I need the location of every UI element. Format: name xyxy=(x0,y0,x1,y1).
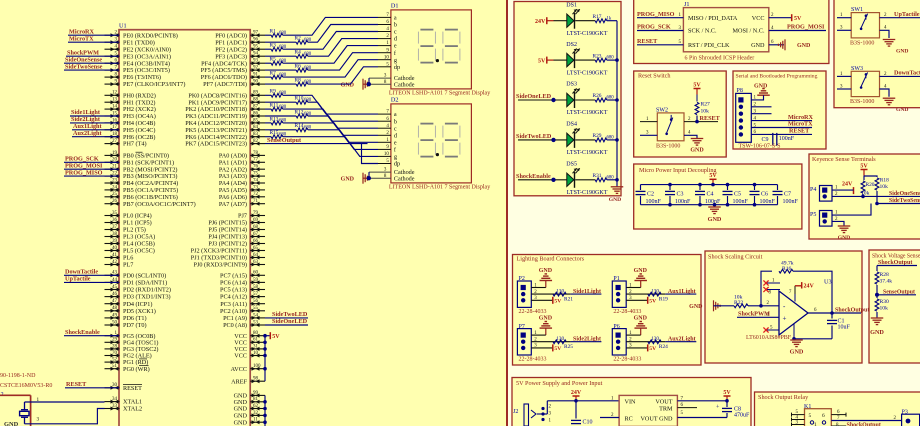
ground P6 pin 1 xyxy=(634,316,648,336)
D2 cathode pin 3 xyxy=(369,168,415,177)
svg-text:LT6010AIS8#PBF: LT6010AIS8#PBF xyxy=(746,335,792,341)
resistor R26 680 xyxy=(575,93,617,102)
junction xyxy=(615,178,619,182)
LED DS5 LTST-C190GKT xyxy=(516,162,608,197)
P6 pin 1 wire xyxy=(626,331,641,336)
regulator pin 5 wire xyxy=(677,411,727,418)
MCU pin 65 PJ2 (XCK3/PCINT11) xyxy=(191,246,265,255)
svg-text:54: 54 xyxy=(253,313,259,318)
wire XTAL2 xyxy=(25,409,105,424)
svg-text:96: 96 xyxy=(253,38,259,43)
svg-text:R20: R20 xyxy=(866,182,875,188)
svg-text:PG0 (WR): PG0 (WR) xyxy=(123,366,150,373)
junction xyxy=(759,304,763,308)
SW3 pin 3 wire xyxy=(837,84,851,89)
svg-text:130: 130 xyxy=(651,336,659,342)
resistor R27 10k xyxy=(695,102,710,115)
resistor R23 680 xyxy=(575,53,617,62)
svg-text:PJ0 (RXD3/PCINT9): PJ0 (RXD3/PCINT9) xyxy=(194,262,247,269)
svg-text:SideOneLED: SideOneLED xyxy=(272,318,308,325)
svg-text:33: 33 xyxy=(112,404,118,409)
wire net Side1Light xyxy=(70,115,119,117)
LED DS4 LTST-C190GKT xyxy=(516,122,608,157)
MCU pin 59 PC6 (A14) xyxy=(220,278,265,287)
svg-text:GND: GND xyxy=(689,304,703,310)
svg-text:PL7: PL7 xyxy=(123,262,133,269)
svg-text:5V: 5V xyxy=(272,334,280,340)
svg-text:LITEON LSHD-A101 7 Segment Dis: LITEON LSHD-A101 7 Segment Display xyxy=(389,91,490,97)
MCU pin 42 PL7 xyxy=(105,260,134,269)
svg-text:SideTwoSense: SideTwoSense xyxy=(65,63,103,70)
svg-text:DS2: DS2 xyxy=(566,42,577,48)
svg-text:c: c xyxy=(394,29,397,36)
svg-text:GND: GND xyxy=(870,329,884,336)
resistor R17 1k xyxy=(575,14,617,23)
svg-text:10k: 10k xyxy=(701,109,710,115)
svg-text:26: 26 xyxy=(112,199,118,204)
svg-text:LITEON LSHD-A101 7 Segment Dis: LITEON LSHD-A101 7 Segment Display xyxy=(389,185,490,191)
junction xyxy=(263,341,267,345)
svg-text:R26: R26 xyxy=(593,93,602,99)
MCU pin 77 PA1 (AD1) xyxy=(219,158,265,167)
svg-text:52: 52 xyxy=(112,358,118,363)
D2 pin 4 segment c xyxy=(378,124,397,133)
svg-text:AVCC: AVCC xyxy=(231,366,247,373)
connector P2 22-28-4033 xyxy=(517,276,546,315)
resistor R30 10k xyxy=(875,299,889,312)
svg-text:55: 55 xyxy=(253,306,259,311)
MCU pin 80 VCC xyxy=(234,331,265,340)
svg-text:PL3 (OC5A): PL3 (OC5A) xyxy=(123,234,155,241)
svg-text:85: 85 xyxy=(253,118,259,123)
LED indicators group box xyxy=(514,2,621,196)
MCU pin 11 GND xyxy=(234,418,265,426)
svg-text:10k: 10k xyxy=(880,306,889,312)
svg-text:P4: P4 xyxy=(810,187,816,193)
svg-text:PJ5 (PCINT14): PJ5 (PCINT14) xyxy=(208,227,247,234)
MCU pin 4 PE2 (XCK0/AIN0) xyxy=(105,45,171,54)
MCU pin 88 PK1 (ADC9/PCINT17) xyxy=(188,98,265,107)
svg-text:5V: 5V xyxy=(649,346,656,352)
D1 pin 4 segment c xyxy=(378,27,397,35)
MCU pin 24 PB5 (OC1A/PCINT5) xyxy=(105,185,179,194)
resistor R11 680 xyxy=(265,103,287,112)
svg-text:SideTwoSense: SideTwoSense xyxy=(889,198,920,204)
MCU pin 83 PK6 (ADC14/PCINT22) xyxy=(185,132,265,141)
wire to inverting input xyxy=(748,305,779,307)
svg-text:11: 11 xyxy=(253,418,258,423)
svg-text:LTST-C190GKT: LTST-C190GKT xyxy=(567,150,608,156)
svg-text:PD1 (SDA/INT1): PD1 (SDA/INT1) xyxy=(123,280,167,287)
regulator pin texts xyxy=(625,398,674,422)
D1 cathode pin 3 xyxy=(369,74,415,83)
svg-text:e: e xyxy=(394,139,397,146)
MCU pin 27 PH7 (T4) xyxy=(105,139,147,148)
svg-text:40: 40 xyxy=(112,246,118,251)
wire PF1 to D1 segment xyxy=(308,25,378,43)
svg-text:VIN: VIN xyxy=(625,398,637,405)
svg-text:PL4 (OC5B): PL4 (OC5B) xyxy=(123,241,155,248)
svg-text:PF2 (ADC2): PF2 (ADC2) xyxy=(215,46,247,53)
svg-text:38: 38 xyxy=(112,232,118,237)
svg-text:dp: dp xyxy=(394,64,400,71)
svg-text:37.4k: 37.4k xyxy=(880,279,893,285)
svg-text:Shock Voltage Sense: Shock Voltage Sense xyxy=(872,254,920,260)
svg-text:R29: R29 xyxy=(593,133,602,139)
wire net SideTwoLED xyxy=(265,317,308,319)
no-connect pin 8 xyxy=(763,287,780,296)
svg-text:MicroTX: MicroTX xyxy=(69,35,94,42)
regulator pin 2 wire xyxy=(600,413,619,418)
svg-text:Reset Switch: Reset Switch xyxy=(638,73,671,80)
svg-text:46: 46 xyxy=(112,292,118,297)
svg-text:Keyence Sense Terminals: Keyence Sense Terminals xyxy=(812,156,876,163)
MCU pin 20 PB1 (SCK/PCINT1) xyxy=(105,158,175,167)
P4 pin 2 wire SideOneSense xyxy=(832,192,920,198)
svg-text:PF7 (ADC7/TDI): PF7 (ADC7/TDI) xyxy=(203,81,247,88)
J1 pin row 3/4 xyxy=(688,28,765,35)
wire PF3 to D1 segment xyxy=(308,39,378,57)
svg-text:DS5: DS5 xyxy=(566,162,577,168)
svg-text:R8: R8 xyxy=(295,78,302,84)
MCU pin 68 PJ5 (PCINT14) xyxy=(208,225,265,234)
resistor R5 680 xyxy=(265,57,287,66)
svg-text:90: 90 xyxy=(253,80,259,85)
svg-text:53: 53 xyxy=(253,320,259,325)
junction xyxy=(875,202,879,206)
D1 pin 9 segment f xyxy=(378,48,397,57)
capacitor C3 100nF xyxy=(665,183,691,207)
MCU pin 57 PC4 (A12) xyxy=(220,292,265,301)
svg-text:48: 48 xyxy=(112,306,118,311)
MCU pin 49 PD6 (T1) xyxy=(105,313,147,322)
resistor R21 130 net Side1Light xyxy=(531,289,601,303)
SW2 pin 1 wire xyxy=(640,117,657,122)
svg-text:97: 97 xyxy=(253,31,259,36)
junction xyxy=(574,399,578,403)
svg-text:1: 1 xyxy=(814,422,817,426)
op-amp output pin 6 xyxy=(808,308,834,315)
power 5V reset pullup xyxy=(694,88,701,90)
svg-text:28: 28 xyxy=(112,344,118,349)
svg-text:100nF: 100nF xyxy=(779,136,795,142)
wire PK5 to D2 segment xyxy=(308,130,378,150)
wire PF5 to D1 segment xyxy=(308,53,378,70)
ground P7 pin 1 xyxy=(539,316,553,336)
svg-text:RST / PDI_CLK: RST / PDI_CLK xyxy=(688,42,730,49)
resonator Z2 part labels xyxy=(0,373,52,398)
resistor R6 680 xyxy=(265,64,312,73)
svg-text:27: 27 xyxy=(112,139,118,144)
no-connect pin 5 xyxy=(763,325,779,332)
svg-text:R12: R12 xyxy=(295,109,304,115)
wire 5V to R18 xyxy=(864,176,877,177)
MCU pin 78 PA0 (AD0) xyxy=(219,151,265,160)
MCU pin 70 PG2 (ALE) xyxy=(105,351,152,360)
svg-text:71: 71 xyxy=(253,199,259,204)
MCU pin 15 PH3 (OC4A) xyxy=(105,111,156,120)
svg-text:DownTactile: DownTactile xyxy=(65,269,98,276)
wire 24V rail xyxy=(547,400,619,402)
P7 pin 3 5V xyxy=(531,344,561,353)
svg-text:5V: 5V xyxy=(554,346,561,352)
MCU pin 54 PC1 (A9) xyxy=(223,313,265,322)
MCU pin 28 PG3 (TOSC2) xyxy=(105,344,159,353)
Shock Voltage Sense group box xyxy=(869,250,920,363)
svg-text:U1: U1 xyxy=(119,23,127,30)
svg-text:SideOneSense: SideOneSense xyxy=(889,191,920,197)
svg-text:PF1 (ADC1): PF1 (ADC1) xyxy=(215,39,247,46)
svg-text:57: 57 xyxy=(253,292,259,297)
P6 pin 3 5V xyxy=(626,344,656,353)
svg-text:MISO / PDI_DATA: MISO / PDI_DATA xyxy=(688,15,738,22)
svg-text:R11: R11 xyxy=(270,103,279,109)
LED DS1 LTST-C190GKT xyxy=(535,2,608,37)
wire feedback to output xyxy=(793,271,832,313)
MCU pin 29 PG4 (TOSC1) xyxy=(105,338,159,347)
resistor R24 130 net Aux2Light xyxy=(626,336,696,350)
svg-text:PC6 (A14): PC6 (A14) xyxy=(220,280,247,287)
svg-text:C7: C7 xyxy=(784,192,791,198)
MCU pin 98 AREF xyxy=(231,377,265,386)
power 24V input flag xyxy=(573,395,580,397)
svg-text:RESET: RESET xyxy=(637,38,658,45)
MCU pin 74 PA4 (AD4) xyxy=(219,178,265,187)
svg-text:100nF: 100nF xyxy=(760,199,776,205)
svg-text:PE5 (OC3C/INT5): PE5 (OC3C/INT5) xyxy=(123,67,170,74)
SW1 pin 2 net UpTactile xyxy=(880,11,920,18)
svg-text:Shock Output Relay: Shock Output Relay xyxy=(758,394,809,401)
svg-text:78: 78 xyxy=(253,151,259,156)
5V Power Supply group box xyxy=(512,378,751,426)
svg-text:130: 130 xyxy=(556,289,564,295)
MCU pin 2 PE0 (RXD0/PCINT8) xyxy=(105,31,178,40)
svg-text:D2: D2 xyxy=(391,97,399,104)
svg-text:PJ3 (PCINT12): PJ3 (PCINT12) xyxy=(208,241,247,248)
op-amp pin 4 to ground rail xyxy=(790,324,832,356)
MCU pin 91 PF6 (ADC6/TDO) xyxy=(201,73,265,82)
svg-text:P5: P5 xyxy=(810,212,816,218)
svg-text:PD2 (RXD1/INT2): PD2 (RXD1/INT2) xyxy=(123,287,171,294)
svg-text:B3S-1000: B3S-1000 xyxy=(850,99,874,105)
svg-text:5V: 5V xyxy=(649,299,656,305)
MCU pin 71 PA7 (AD7) xyxy=(219,199,265,208)
wire SenseOutput to D2 dp xyxy=(362,144,379,164)
D1 pin 6 segment b xyxy=(378,20,397,29)
resistor R31 680 xyxy=(575,173,617,182)
svg-text:PK7 (ADC15/PCINT23): PK7 (ADC15/PCINT23) xyxy=(185,141,247,148)
svg-text:67: 67 xyxy=(253,232,259,237)
D2 decimal point xyxy=(436,153,439,156)
svg-text:SideTwoLED: SideTwoLED xyxy=(516,133,552,140)
MCU pin 63 PJ0 (RXD3/PCINT9) xyxy=(194,260,265,269)
MCU pin 35 PL0 (ICP4) xyxy=(105,211,152,220)
MCU pin 62 GND xyxy=(234,404,265,413)
svg-text:GND: GND xyxy=(690,148,704,154)
D2 pin 5 segment dp xyxy=(378,159,400,168)
MCU pin 46 PD3 (TXD1/INT3) xyxy=(105,292,171,301)
MCU pin 31 VCC xyxy=(234,344,265,353)
svg-text:ShockPWM: ShockPWM xyxy=(738,311,770,318)
D1 pin 10 segment g xyxy=(378,55,397,64)
P2 pin 1 wire xyxy=(531,283,546,288)
svg-text:R24: R24 xyxy=(659,344,668,350)
SW1 pin 4 to ground xyxy=(880,26,909,55)
D2 digit graphic xyxy=(418,124,435,157)
D1 digit graphic xyxy=(418,30,435,63)
wire 5V rail xyxy=(641,185,778,205)
wire net PROG_MISO to J1 pin 1 xyxy=(637,11,683,18)
svg-text:PD7 (T0): PD7 (T0) xyxy=(123,322,147,329)
resistor R29 680 xyxy=(575,133,617,142)
svg-text:86: 86 xyxy=(253,111,259,116)
svg-text:PC2 (A10): PC2 (A10) xyxy=(220,308,247,315)
svg-text:UpTactile: UpTactile xyxy=(894,11,920,18)
svg-text:PD5 (XCK1): PD5 (XCK1) xyxy=(123,308,156,315)
wire net DownTactile xyxy=(64,274,119,276)
MCU pin 76 PA2 (AD2) xyxy=(219,165,265,174)
svg-text:470uF: 470uF xyxy=(734,413,750,419)
svg-text:PB7 (OC0A/OC1C/PCINT7): PB7 (OC0A/OC1C/PCINT7) xyxy=(123,201,196,208)
MCU pin 37 PL2 (T5) xyxy=(105,225,146,234)
svg-text:RC: RC xyxy=(625,415,633,422)
resistor R12 680 xyxy=(265,109,312,118)
svg-text:65: 65 xyxy=(253,246,259,251)
MCU pin 34 XTAL1 xyxy=(105,397,143,406)
svg-text:g: g xyxy=(394,57,397,64)
wire PF6 to D1 segment xyxy=(283,60,378,77)
svg-text:VOUT GND: VOUT GND xyxy=(640,415,673,422)
svg-text:GND: GND xyxy=(754,84,768,90)
connector J2 power jack xyxy=(513,404,552,426)
wire PF7 to D1 segment xyxy=(308,67,378,84)
J1 pin row 5/6 xyxy=(688,42,765,49)
MCU pin 55 PC2 (A10) xyxy=(220,306,265,315)
svg-text:23: 23 xyxy=(112,178,118,183)
wire PK6 to D2 segment xyxy=(283,137,378,157)
MCU pin 13 PH1 (TXD2) xyxy=(105,98,156,107)
net label ShockPWM and wire xyxy=(737,311,779,318)
D1 digit graphic xyxy=(443,30,460,63)
svg-text:PE6 (T3/INT6): PE6 (T3/INT6) xyxy=(123,74,161,81)
MCU pin 81 GND xyxy=(234,397,265,406)
junction xyxy=(615,138,619,142)
wire net RESET to J1 pin 5 xyxy=(637,38,683,45)
ground P1 pin 1 xyxy=(634,268,648,288)
MCU pin 45 PD2 (RXD1/INT2) xyxy=(105,285,171,294)
svg-text:PL6: PL6 xyxy=(123,255,133,262)
junction xyxy=(711,183,715,187)
svg-text:b: b xyxy=(394,22,397,29)
resonator Z2 symbol xyxy=(20,397,40,424)
MCU pin 16 PH4 (OC4B) xyxy=(105,118,156,127)
capacitor C1 10uF xyxy=(827,313,851,339)
ground P8 pin1 xyxy=(754,84,770,96)
svg-text:22-28-4033: 22-28-4033 xyxy=(519,309,547,315)
svg-text:5V: 5V xyxy=(709,173,717,179)
MCU pin 87 PK2 (ADC10/PCINT18) xyxy=(185,105,265,114)
MCU pin 58 PC5 (A13) xyxy=(220,285,265,294)
MCU pin 21 PB2 (MOSI/PCINT2) xyxy=(105,165,178,174)
svg-text:R3: R3 xyxy=(270,43,277,49)
svg-text:10: 10 xyxy=(253,351,259,356)
svg-text:24V: 24V xyxy=(571,390,582,396)
MCU pin 43 PD0 (SCL/INT0) xyxy=(105,271,167,280)
svg-text:92: 92 xyxy=(253,66,259,71)
svg-text:R31: R31 xyxy=(593,173,602,179)
resistor R7 680 xyxy=(265,71,287,80)
svg-text:PL1 (ICP5): PL1 (ICP5) xyxy=(123,220,152,227)
D1 decimal point xyxy=(436,59,439,62)
svg-text:51: 51 xyxy=(112,364,118,369)
svg-text:95: 95 xyxy=(253,45,259,50)
svg-text:XTAL2: XTAL2 xyxy=(123,406,142,413)
resistor R14 680 xyxy=(265,123,312,132)
svg-text:C3: C3 xyxy=(677,192,684,198)
svg-text:10uF: 10uF xyxy=(838,325,851,331)
P5 pin 1 wire xyxy=(832,204,871,216)
D2 digit graphic xyxy=(443,124,460,157)
svg-text:24V: 24V xyxy=(804,283,815,289)
wire net MicroTX xyxy=(68,41,119,43)
svg-text:50: 50 xyxy=(112,320,118,325)
svg-text:PJ6 (PCINT15): PJ6 (PCINT15) xyxy=(208,220,247,227)
svg-text:+: + xyxy=(783,315,787,323)
junction xyxy=(263,367,267,371)
svg-text:DownTactile: DownTactile xyxy=(894,70,920,77)
svg-text:5V Power Supply and Power Inpu: 5V Power Supply and Power Input xyxy=(516,380,603,387)
svg-text:10: 10 xyxy=(384,55,390,60)
svg-text:R4: R4 xyxy=(295,50,302,56)
svg-text:37: 37 xyxy=(112,225,118,230)
resistor R13 680 xyxy=(265,116,287,125)
svg-text:DS3: DS3 xyxy=(566,82,577,88)
net label ShockOutput xyxy=(832,307,869,313)
svg-text:TSW-106-07-S-S: TSW-106-07-S-S xyxy=(739,144,781,150)
resistor R25 130 net Side2Light xyxy=(531,336,601,350)
svg-text:60: 60 xyxy=(253,271,259,276)
svg-text:99: 99 xyxy=(253,391,259,396)
svg-text:58: 58 xyxy=(253,285,259,290)
MCU pin 36 PL1 (ICP5) xyxy=(105,218,152,227)
wire shockoutput down xyxy=(877,266,917,272)
svg-text:PJ4 (PCINT13): PJ4 (PCINT13) xyxy=(208,234,247,241)
wire net Aux1Light xyxy=(72,129,119,131)
junction xyxy=(263,420,267,424)
svg-text:GND: GND xyxy=(539,268,553,274)
svg-text:130: 130 xyxy=(651,289,659,295)
resistor R9 680 xyxy=(265,89,287,98)
svg-text:94: 94 xyxy=(253,52,259,57)
capacitor C4 100nF xyxy=(695,183,721,207)
ground for D1 cathodes xyxy=(341,78,371,90)
MCU pin 7 PE5 (OC3C/INT5) xyxy=(105,66,170,75)
MCU pin 48 PD5 (XCK1) xyxy=(105,306,156,315)
svg-text:5V: 5V xyxy=(693,82,701,88)
MCU pin 84 PK5 (ADC13/PCINT21) xyxy=(185,125,265,134)
svg-text:R9: R9 xyxy=(270,89,277,95)
svg-text:PF0 (ADC0): PF0 (ADC0) xyxy=(215,32,247,39)
relay pin 7 wire to P3 xyxy=(831,416,901,421)
svg-text:Serial and Bootloaded Programm: Serial and Bootloaded Programming xyxy=(736,74,818,80)
svg-text:64: 64 xyxy=(253,253,259,258)
svg-text:B3S-1000: B3S-1000 xyxy=(850,41,874,47)
MCU pin 18 PH6 (OC2B) xyxy=(105,132,156,141)
wire PK2 to D2 segment xyxy=(283,109,378,128)
svg-text:24V: 24V xyxy=(842,182,853,188)
svg-text:10k: 10k xyxy=(880,184,889,190)
wire net SideOneSense xyxy=(64,62,119,64)
